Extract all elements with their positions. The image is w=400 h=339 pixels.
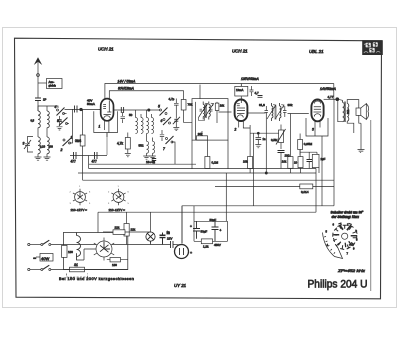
switch mains top: [41, 240, 51, 245]
wire tube2 pins: [239, 121, 250, 128]
svg-text:gleich: gleich: [49, 84, 57, 88]
svg-text:7: 7: [347, 252, 349, 256]
resistor 180b: [107, 258, 128, 262]
switch S7: [166, 136, 176, 164]
mains terminal top: [28, 243, 30, 245]
wire vertical x266 IF2 return: [265, 117, 267, 173]
svg-text:110–127V ≈: 110–127V ≈: [109, 208, 126, 212]
resistor 0,1M: [205, 157, 210, 169]
svg-text:1n: 1n: [167, 230, 171, 234]
potentiometer 0,5M volume: [276, 125, 286, 150]
svg-text:0,85M: 0,85M: [304, 142, 313, 146]
bus wire y179: [83, 179, 334, 181]
resistor 30k IF1: [197, 131, 208, 140]
tube U4 UY21 rectifier: [175, 245, 189, 259]
node anode junction: [336, 98, 339, 101]
svg-text:14V/53mA: 14V/53mA: [320, 87, 337, 91]
svg-text:0,5: 0,5: [31, 119, 35, 123]
svg-text:1: 1: [340, 222, 342, 226]
IF transformer 1 can: [192, 99, 228, 141]
svg-text:6: 6: [161, 119, 163, 123]
ground: [44, 154, 51, 160]
svg-text:477: 477: [71, 160, 77, 164]
wire IF1 feed: [199, 85, 201, 99]
antenna: [34, 57, 42, 77]
IF1 cap bars: [200, 109, 213, 111]
svg-text:Bei 150 und 200V kurzgeschloss: Bei 150 und 200V kurzgeschlossen: [59, 276, 134, 281]
svg-text:13mA: 13mA: [236, 88, 243, 92]
schematic frame: [15, 38, 382, 299]
resistor 180 ballast box: [62, 245, 67, 258]
capacitor 22V series: [171, 241, 174, 248]
svg-text:+: +: [190, 225, 192, 229]
coil osc L7: [147, 110, 149, 134]
svg-text:40W: 40W: [41, 256, 49, 261]
wire tube1 bottom: [105, 121, 109, 137]
tube U1 UCH21 envelope: [101, 99, 114, 121]
wire: [38, 128, 47, 137]
resistor 1k det: [298, 157, 303, 173]
coil osc L10: [153, 138, 155, 154]
capacitor padder: [121, 112, 126, 123]
svg-text:552: 552: [139, 144, 144, 148]
resistor 180k: [248, 125, 253, 173]
svg-text:6: 6: [89, 192, 91, 194]
lamp dial: [146, 232, 155, 241]
wire tube3 pins: [315, 121, 322, 140]
node on bus: [265, 172, 267, 174]
capacitor 50uF a: [193, 221, 200, 239]
IF2 tuning cap right: [283, 106, 287, 117]
wire rect top from bus: [181, 206, 183, 244]
wire tube2 to IF2: [247, 112, 265, 114]
resistor S1: [70, 267, 85, 272]
resistor 22k: [103, 230, 151, 235]
capacitor 1u on bus: [152, 159, 156, 165]
svg-text:110–127V ≈: 110–127V ≈: [71, 208, 88, 212]
tube U3 UBL21 envelope: [311, 100, 323, 122]
shield box power: [63, 233, 127, 270]
bus wire y205: [182, 205, 334, 207]
capacitor 4uF: [250, 86, 254, 96]
wire grid line to tube 1: [65, 109, 101, 111]
wire mains top b: [51, 244, 96, 246]
wire cap to rectifier: [151, 244, 182, 246]
svg-text:2: 2: [60, 148, 63, 152]
wire lamp down: [150, 241, 152, 244]
socket A pin numbers: [70, 186, 92, 211]
transformer T1 core: [344, 102, 347, 123]
tube U2 UCH21 envelope: [235, 100, 248, 122]
capacitor 477 a: [74, 152, 77, 159]
svg-text:14V / 53mA: 14V / 53mA: [118, 79, 136, 83]
wire det junction: [300, 150, 317, 157]
svg-text:1: 1: [79, 186, 81, 188]
capacitor 50uF b: [212, 221, 219, 241]
resistor 1,2k: [201, 239, 212, 244]
svg-text:3: 3: [312, 128, 314, 132]
bus wire y173: [78, 172, 316, 174]
svg-text:der Stellung: Kurz: der Stellung: Kurz: [332, 215, 360, 219]
svg-text:135V/43mA: 135V/43mA: [241, 77, 259, 81]
svg-text:61,8: 61,8: [259, 103, 265, 107]
supply line 135V drop: [333, 84, 335, 100]
socket B pin numbers: [108, 186, 130, 211]
node junction: [80, 108, 83, 111]
wire IF1 to tube2: [219, 111, 232, 113]
svg-text:Philips 204 U: Philips 204 U: [308, 279, 368, 291]
wire vertical x322: [321, 140, 323, 206]
tube U1 electrodes: [100, 101, 112, 119]
rotary switch wafer: [333, 223, 358, 250]
socket B viewed from below: [111, 189, 125, 205]
wire vertical x316: [315, 169, 317, 213]
coil osc L8: [152, 114, 154, 134]
lamp dial: [146, 232, 155, 241]
rotary sector outline: [323, 233, 343, 259]
IF1 secondary coil: [209, 102, 211, 120]
svg-text:5: 5: [326, 230, 328, 234]
svg-text:5: 5: [128, 203, 130, 205]
switch mains bottom: [41, 265, 51, 270]
svg-text:8: 8: [356, 238, 358, 242]
wire socketC right: [112, 244, 150, 246]
svg-text:5: 5: [89, 203, 91, 205]
svg-text:4,7k: 4,7k: [117, 142, 123, 146]
capacitor 0,1 power: [160, 233, 166, 245]
svg-text:1n: 1n: [263, 137, 267, 141]
svg-text:450V: 450V: [214, 243, 221, 247]
svg-text:+: +: [190, 251, 192, 255]
svg-text:2: 2: [234, 128, 237, 132]
bracket S1: [67, 274, 88, 278]
wire anode tube1 to osc block: [114, 109, 161, 111]
tube U2 electrodes: [237, 96, 245, 117]
ballast coil: [77, 233, 85, 261]
svg-text:4: 4: [55, 105, 57, 109]
switch S6: [163, 117, 171, 125]
socket C heater: [94, 238, 114, 261]
filter rails: [194, 221, 228, 241]
wire mains bottom b: [51, 269, 128, 271]
svg-text:6: 6: [333, 223, 335, 227]
resistor 22k: [124, 212, 129, 244]
coil osc L5: [136, 110, 138, 134]
svg-text:5: 5: [158, 105, 160, 109]
svg-text:4,7: 4,7: [255, 91, 260, 95]
capacitor 0,1 power: [160, 233, 166, 244]
svg-text:7: 7: [163, 147, 165, 151]
capacitor 100n: [307, 152, 313, 168]
wire mains top: [30, 244, 41, 246]
tube U3 electrodes: [314, 99, 322, 116]
coil osc L6: [141, 114, 143, 134]
svg-text:180: 180: [112, 263, 117, 267]
resistor 4,7k cathode: [125, 133, 131, 157]
svg-text:3: 3: [356, 229, 358, 233]
transformer T1 primary return: [338, 100, 343, 121]
svg-text:UCH 21: UCH 21: [232, 49, 248, 54]
trimmer cap osc: [173, 117, 180, 131]
capacitor coupling top: [258, 96, 263, 98]
lamp 40W box: [36, 254, 53, 262]
capacitor 100: [278, 151, 285, 169]
capacitor coupling det: [250, 132, 279, 148]
svg-text:UCH 21: UCH 21: [98, 47, 114, 52]
wire antenna down: [37, 76, 39, 97]
svg-text:50: 50: [129, 113, 133, 117]
svg-text:30k: 30k: [198, 132, 203, 136]
ground: [35, 154, 42, 160]
wire lamp down: [150, 241, 152, 243]
wire vertical x253: [253, 133, 255, 206]
svg-text:S1: S1: [74, 263, 78, 267]
svg-text:1P: 1P: [43, 98, 47, 102]
svg-text:477: 477: [92, 160, 98, 164]
svg-text:22V: 22V: [167, 237, 172, 241]
node: [148, 109, 150, 111]
svg-text:30k: 30k: [288, 103, 293, 107]
wire right long: [370, 120, 372, 291]
wire top coils: [38, 106, 58, 111]
svg-text:10k: 10k: [220, 104, 225, 108]
wire vertical x89: [88, 156, 90, 169]
svg-text:310: 310: [346, 109, 350, 114]
capacitor 2uF box: [312, 154, 319, 173]
switch S1/S2 lower: [63, 109, 73, 146]
socket A viewed from below: [73, 189, 87, 205]
tube U4 electrodes: [180, 248, 184, 255]
coil osc L9: [147, 134, 149, 154]
svg-text:22k: 22k: [115, 226, 120, 230]
ground: [149, 153, 156, 159]
svg-text:50µF: 50µF: [210, 218, 217, 222]
IF1 primary coil: [203, 102, 205, 120]
svg-text:0,1M: 0,1M: [212, 161, 219, 165]
resistor 10k screen: [181, 100, 192, 123]
wire mains bottom: [30, 269, 41, 271]
IF1 trimmer arrows: [199, 103, 208, 117]
capacitor 477 b: [95, 152, 98, 159]
svg-text:+: +: [220, 229, 222, 233]
svg-text:10: 10: [294, 161, 298, 165]
svg-text:3: 3: [108, 203, 110, 205]
wire IF1 down: [207, 140, 209, 156]
svg-text:ZF=452 kHz: ZF=452 kHz: [337, 269, 365, 273]
wire AVC: [70, 155, 107, 157]
svg-text:4,77: 4,77: [328, 95, 334, 99]
wire bus riser power: [97, 212, 99, 232]
svg-text:10k: 10k: [282, 159, 287, 163]
resistor 1,8k: [288, 114, 293, 174]
wire socketC left: [84, 249, 96, 260]
wire IF2 to tube3: [288, 113, 309, 115]
svg-text:Schalter dreht um 90°: Schalter dreht um 90°: [331, 211, 365, 215]
speaker LS: [356, 104, 369, 120]
svg-text:203: 203: [49, 145, 54, 149]
transformer T1 primary: [343, 101, 345, 122]
resistor 10k IF1: [215, 103, 219, 110]
capacitor osc pad: [160, 130, 164, 141]
svg-text:2: 2: [70, 192, 72, 194]
IF2 primary coil: [272, 103, 274, 121]
wire vertical x194: [193, 206, 195, 222]
bus wire y164: [89, 163, 196, 165]
svg-text:2µF: 2µF: [321, 157, 326, 161]
svg-text:50mA: 50mA: [87, 102, 95, 106]
svg-text:6: 6: [128, 192, 130, 194]
capacitor series grid: [75, 106, 78, 113]
supply line 80V/19mA: [109, 91, 183, 100]
IF2 trimmer arrows: [267, 105, 276, 119]
capacitor ant series: [35, 98, 41, 111]
resistor 0,85M grid leak: [298, 134, 303, 156]
svg-text:1,2k: 1,2k: [203, 245, 209, 249]
coil L1: [38, 111, 40, 128]
svg-text:3: 3: [23, 142, 25, 146]
shield box tube 1: [94, 111, 118, 132]
resistor 13mA box top: [235, 85, 248, 96]
svg-text:10k: 10k: [243, 160, 248, 164]
node antenna terminal: [37, 74, 40, 77]
wire lamp riser: [150, 212, 152, 232]
svg-text:9: 9: [353, 247, 355, 251]
svg-text:180: 180: [68, 250, 73, 254]
ground: [143, 153, 150, 159]
svg-text:1: 1: [118, 186, 120, 188]
svg-text:2: 2: [108, 192, 110, 194]
bus wire ground y168.5: [89, 168, 316, 170]
resistor 0,014: [300, 184, 313, 189]
capacitor series osc: [121, 107, 123, 113]
wire vertical x334: [333, 99, 335, 205]
trimmer capacitor 3: [24, 137, 33, 153]
logo Philips box: [362, 40, 383, 55]
IF2 core: [275, 106, 276, 120]
coil L3: [38, 137, 40, 154]
wire tube3 anode: [324, 98, 336, 100]
IF2 secondary coil: [280, 103, 282, 121]
svg-text:0,10: 0,10: [40, 145, 46, 149]
wire heater drop: [106, 133, 108, 156]
bus wire y212: [98, 211, 316, 213]
svg-text:1: 1: [71, 136, 73, 140]
supply line 14V/53mA: [105, 84, 334, 100]
switch S5: [160, 108, 168, 116]
coil L2: [47, 111, 49, 128]
wire anode to transformer: [337, 99, 342, 100]
svg-text:0,014: 0,014: [301, 190, 309, 194]
resistor 0M4: [80, 110, 85, 181]
svg-text:UY 21: UY 21: [174, 283, 187, 288]
resistor Ausgleich box: [38, 79, 62, 89]
svg-text:50µF: 50µF: [201, 230, 208, 234]
svg-text:0M4: 0M4: [75, 139, 81, 143]
shield box tube 3: [306, 118, 328, 136]
wire rect top from bus: [181, 206, 183, 244]
mains terminal bottom: [28, 268, 30, 270]
svg-text:+10: +10: [349, 243, 354, 247]
svg-text:80V/19mA: 80V/19mA: [118, 87, 135, 91]
svg-text:UBL 21: UBL 21: [309, 49, 324, 54]
wire secondary to speaker top: [347, 100, 359, 108]
wire vertical x226: [225, 173, 227, 221]
IF2 tuning cap left: [265, 106, 269, 117]
coil L4: [47, 137, 49, 154]
capacitor 4,7p: [174, 99, 179, 119]
wire secondary bottom: [347, 121, 354, 133]
svg-text:3: 3: [70, 203, 72, 205]
bus wire y186: [215, 185, 334, 187]
svg-text:1: 1: [99, 125, 101, 129]
svg-text:22k: 22k: [131, 228, 136, 232]
svg-text:≃: ≃: [33, 256, 36, 261]
switch S3/S4 wave range: [57, 108, 70, 126]
transformer T1 secondary: [347, 104, 349, 122]
capacitor to ground: [57, 116, 63, 130]
IF1 core: [206, 104, 207, 118]
ground speaker: [358, 115, 365, 152]
svg-text:0,5M: 0,5M: [271, 138, 278, 142]
svg-text:4,7p: 4,7p: [169, 97, 175, 101]
